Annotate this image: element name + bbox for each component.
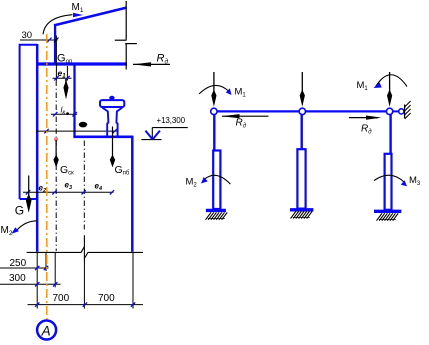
column upper flange rectangle (20, 45, 38, 199)
load arrow left (213, 72, 215, 94)
crane rail profile (100, 96, 124, 136)
crane axis dim line (y=131) (36, 130, 117, 132)
moment M1 arc top-left (199, 85, 229, 93)
svg-text:G: G (15, 204, 24, 218)
left base hatch (206, 212, 228, 219)
corbel top bar (73, 136, 133, 139)
load Gop arrow (65, 79, 67, 86)
right column upper line (389, 113, 391, 154)
R arrow (crane brake force, left diagram) (133, 63, 170, 65)
M2 arrowhead (12, 227, 19, 234)
right base bar (374, 210, 401, 213)
axis bubble A (37, 321, 56, 340)
left column upper line (213, 113, 215, 151)
load Gsk arrow (55, 140, 57, 160)
middle column lower rect (297, 149, 305, 208)
svg-text:700: 700 (98, 293, 115, 304)
column main left face line (36, 44, 39, 252)
svg-text:700: 700 (53, 293, 70, 304)
svg-text:250: 250 (10, 258, 27, 269)
point marker ellipse (79, 122, 87, 128)
e1 dim line (53, 77, 72, 79)
extension lines below cut (37, 252, 133, 309)
e1 extension lines (56, 44, 67, 81)
hinge circle right (386, 108, 392, 114)
ticks (44, 129, 117, 133)
red point marker (54, 137, 58, 141)
svg-text:300: 300 (9, 273, 26, 284)
hinge circle left (211, 108, 217, 114)
R arrow left (222, 115, 269, 117)
e1 ticks (54, 76, 69, 80)
lk ticks (53, 112, 77, 116)
svg-text:+13,300: +13,300 (157, 116, 186, 125)
beam line (214, 110, 390, 112)
axis dash-dot line 1 (x=56) (55, 81, 57, 252)
moment M1 arc (43, 15, 72, 35)
axis dash-dot line 2 (x=84) (83, 141, 85, 230)
roof slant line (54, 8, 127, 26)
column axis (orange dash-dot) (46, 34, 48, 320)
right base hatch (377, 213, 399, 220)
dim 250 line (0, 267, 49, 269)
svg-text:A: A (41, 323, 51, 338)
load Gpb arrowhead (110, 155, 115, 168)
middle base bar (290, 208, 313, 211)
middle base hatch (291, 211, 313, 218)
bottom cut line (27, 247, 143, 258)
dim 30 ticks (47, 38, 52, 43)
moment M1 arc top-right (376, 75, 407, 87)
svg-text:30: 30 (22, 30, 33, 41)
roof cut break line (115, 1, 137, 70)
dim 30 line (20, 39, 58, 41)
dim 300 line (0, 283, 61, 285)
ticks (26, 190, 114, 194)
moment M1 arrowhead (73, 13, 83, 17)
roller support right (393, 110, 399, 112)
dim 700+700 line (28, 304, 144, 306)
lower column right face (131, 136, 134, 252)
lk dim line (51, 113, 77, 115)
left column lower rect (213, 151, 220, 210)
beam bar (36, 62, 127, 65)
moment M3 arc bottom-right (374, 175, 405, 182)
upper column left vertical (54, 25, 56, 63)
load arrow right (389, 72, 391, 94)
break jog vertical (83, 235, 85, 262)
elevation mark +13,300 (141, 128, 188, 140)
load G arrow (28, 176, 30, 199)
right column lower rect (385, 154, 392, 210)
moment M2 arc (left diagram) (17, 221, 37, 231)
small dot marker (66, 112, 69, 115)
upper column right face (73, 64, 75, 138)
moment M2 arc bottom-left (204, 175, 231, 184)
middle column upper line (301, 113, 303, 149)
crane load line (rail axis) (112, 127, 114, 161)
e2 e3 e4 dim line (23, 191, 114, 193)
R arrow right (349, 117, 378, 119)
hinge circle middle (299, 108, 305, 114)
left base bar (206, 209, 226, 212)
load arrow middle (301, 72, 303, 94)
